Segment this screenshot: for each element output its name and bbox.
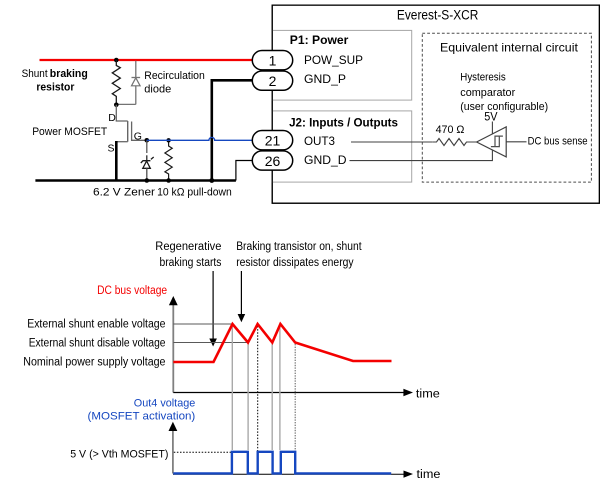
svg-text:Out4 voltage: Out4 voltage (134, 397, 196, 409)
op-amp: hysteresis comparator (460, 72, 548, 157)
svg-text:10 kΩ pull-down: 10 kΩ pull-down (157, 187, 232, 199)
node: pull-down bottom (166, 178, 171, 183)
pin 26 (252, 151, 347, 170)
svg-text:21: 21 (265, 133, 281, 149)
resistor: 10 kOhm pull-down (157, 140, 232, 198)
svg-text:Everest-S-XCR: Everest-S-XCR (397, 8, 479, 23)
level line: 5V dotted (70, 448, 232, 460)
node: red bus / shunt resistor junction (114, 58, 119, 63)
svg-text:resistor dissipates energy: resistor dissipates energy (236, 257, 354, 269)
svg-text:G: G (134, 131, 142, 143)
annotation: braking transistor on (236, 241, 362, 269)
pin 1 (252, 51, 363, 70)
svg-text:braking: braking (50, 68, 88, 80)
transistor: power MOSFET (32, 105, 147, 155)
waveform: Out4 voltage (blue) (173, 452, 391, 474)
svg-text:D: D (108, 112, 116, 124)
waveform: DC bus voltage (red) (173, 324, 391, 362)
svg-text:Braking transistor on, shunt: Braking transistor on, shunt (236, 241, 362, 253)
svg-text:External shunt disable voltage: External shunt disable voltage (29, 337, 166, 349)
gridline: trough2 (271, 344, 273, 451)
wire: GND_D to comparator reference (350, 150, 493, 161)
gridline: trough1 (247, 344, 249, 451)
power: 5V supply to comparator (484, 109, 497, 133)
node: pin2 wire / ground bus (209, 178, 214, 183)
svg-text:26: 26 (265, 153, 281, 169)
wire: pin 26 to ground bus (236, 161, 253, 181)
svg-text:P1: Power: P1: Power (290, 33, 349, 47)
level line: external shunt disable voltage (29, 337, 248, 349)
axis: DC bus voltage vertical (169, 296, 178, 393)
svg-text:Equivalent internal circuit: Equivalent internal circuit (440, 40, 579, 54)
Everest-S-XCR outer box (272, 5, 599, 203)
wire: MOSFET source to ground bus (thick) (115, 141, 118, 182)
svg-text:POW_SUP: POW_SUP (304, 53, 363, 67)
gridline: peak1 (231, 325, 233, 450)
gridline: pulse3 end dotted (294, 344, 296, 452)
svg-text:1: 1 (269, 52, 277, 68)
pin 2 (252, 71, 346, 90)
svg-text:diode: diode (144, 83, 171, 95)
J2 connector box (272, 111, 412, 182)
svg-text:2: 2 (269, 73, 277, 89)
wire: gate to pin 21 (blue, hops over black wire) (147, 137, 253, 140)
axis: red chart time axis (173, 386, 440, 400)
resistor: shunt braking resistor (22, 60, 121, 105)
resistor: 470 Ohm (433, 124, 477, 145)
svg-text:Regenerative: Regenerative (155, 241, 221, 253)
pin 21 (252, 131, 335, 150)
svg-text:(MOSFET activation): (MOSFET activation) (88, 411, 196, 423)
svg-text:DC bus voltage: DC bus voltage (97, 285, 167, 297)
svg-text:Shunt: Shunt (22, 68, 49, 80)
axis: Out4 vertical (169, 422, 178, 474)
gridline: peak2 dotted (257, 326, 259, 452)
svg-text:DC bus sense: DC bus sense (528, 136, 588, 148)
node: zener / ground bus (145, 178, 150, 183)
diode: 6.2 V Zener (93, 140, 155, 198)
node: gate junction (145, 138, 150, 143)
svg-text:Hysteresis: Hysteresis (460, 72, 506, 84)
Everest-S-XCR outer box border (drawn over inner box edges) (272, 5, 599, 203)
annotation: regenerative braking starts (155, 241, 221, 269)
svg-text:5 V (> Vth MOSFET): 5 V (> Vth MOSFET) (70, 448, 168, 460)
wire: comparator output DC bus sense (506, 136, 587, 148)
svg-text:OUT3: OUT3 (304, 134, 335, 148)
svg-text:Recirculation: Recirculation (144, 70, 205, 82)
svg-text:S: S (107, 142, 114, 154)
arrow: to braking start point (209, 271, 217, 347)
diode: recirculation diode (117, 61, 205, 105)
svg-text:resistor: resistor (36, 81, 75, 93)
wire: red DC bus supply to pin 1 (40, 59, 253, 61)
svg-text:5V: 5V (484, 109, 497, 123)
axis: blue chart time axis (173, 467, 441, 481)
svg-text:time: time (416, 386, 440, 400)
svg-text:470 Ω: 470 Ω (436, 124, 465, 136)
wire: ground bus (35, 179, 236, 182)
svg-text:comparator: comparator (460, 87, 515, 99)
svg-text:Nominal power supply voltage: Nominal power supply voltage (23, 357, 165, 369)
svg-text:time: time (417, 467, 441, 481)
equivalent internal circuit dashed box (422, 33, 591, 182)
svg-text:Power MOSFET: Power MOSFET (32, 126, 107, 138)
svg-text:GND_P: GND_P (304, 72, 346, 86)
level line: external shunt enable voltage (27, 318, 232, 330)
axis label: Out4 voltage (MOSFET activation) (88, 397, 196, 422)
arrow: to braking transistor on point (238, 271, 246, 322)
svg-text:(user configurable): (user configurable) (460, 101, 548, 113)
gridline: peak3 (279, 325, 281, 450)
svg-text:J2: Inputs / Outputs: J2: Inputs / Outputs (289, 115, 398, 129)
wire: pin 2 to ground bus (thick) (212, 80, 253, 181)
wire: OUT3 to 470 ohm resistor (351, 141, 433, 143)
node: pull-down top (166, 138, 170, 142)
svg-text:braking starts: braking starts (160, 257, 222, 269)
svg-text:External shunt enable voltage: External shunt enable voltage (27, 318, 165, 330)
svg-text:6.2 V Zener: 6.2 V Zener (93, 187, 155, 199)
svg-text:GND_D: GND_D (304, 153, 347, 167)
P1 connector box (272, 30, 412, 100)
node: shunt / diode / MOSFET drain junction (114, 103, 119, 108)
